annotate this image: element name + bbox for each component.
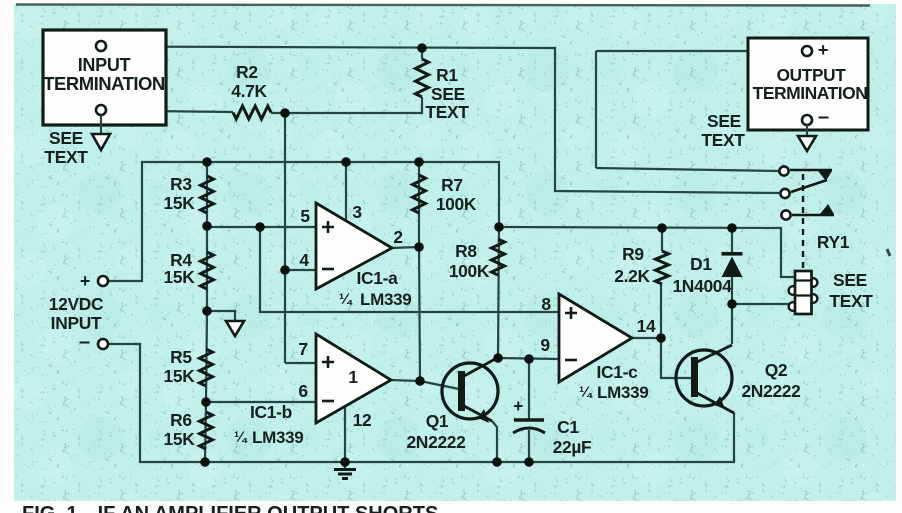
relay coil RY1 — [789, 286, 795, 295]
wire Q1 emitter to rail — [492, 421, 497, 462]
wire R2 right to divider node and R1 bottom — [271, 97, 422, 113]
12VDC input - terminal — [98, 339, 108, 349]
svg-text:INPUT: INPUT — [51, 313, 102, 333]
junction — [727, 299, 737, 309]
svg-text:6: 6 — [298, 381, 308, 401]
svg-text:D1: D1 — [690, 254, 712, 274]
svg-text:12: 12 — [353, 410, 372, 430]
wire D1 bottom to relay coil — [732, 303, 790, 305]
wire R8 leads — [498, 227, 499, 358]
wire pin 14 output — [632, 337, 661, 339]
wire pin 9 input — [498, 358, 559, 359]
junction — [524, 354, 534, 364]
junction — [202, 306, 212, 316]
junction — [255, 222, 265, 232]
svg-text:¼: ¼ — [234, 429, 248, 446]
svg-text:LM339: LM339 — [597, 383, 648, 402]
relay RY1 contact 3 — [792, 214, 834, 217]
svg-text:5: 5 — [300, 206, 310, 226]
svg-text:SEE: SEE — [833, 270, 867, 290]
wire R4 leads — [206, 226, 208, 311]
output terminal - — [802, 115, 812, 125]
wire pin 3 V+ stub — [345, 162, 347, 223]
wire divider vertical to pin4/pin7 — [284, 113, 286, 363]
wire D1 anode lead / Q2 collector node — [731, 228, 733, 304]
svg-text:3: 3 — [352, 202, 362, 222]
svg-text:2: 2 — [393, 227, 402, 247]
wire input-top to relay pole (node IN+) — [106, 47, 779, 194]
junction — [341, 157, 351, 167]
12VDC input + terminal — [98, 276, 108, 286]
svg-text:LM339: LM339 — [252, 428, 303, 447]
svg-text:2N2222: 2N2222 — [741, 381, 800, 401]
wire R9 bottom to Q2 base node — [661, 284, 692, 378]
svg-text:SEE: SEE — [707, 111, 741, 131]
svg-text:8: 8 — [541, 294, 551, 314]
junction — [200, 457, 210, 467]
junction — [524, 457, 534, 467]
svg-text:12VDC: 12VDC — [49, 294, 104, 314]
wire R1 top tap — [421, 48, 423, 59]
svg-text:SEE: SEE — [49, 128, 83, 148]
resistor R6 — [200, 412, 213, 449]
wire R7 leads — [418, 162, 420, 247]
wire pin 12 ground stub — [344, 404, 346, 462]
svg-text:R5: R5 — [170, 347, 192, 367]
svg-text:TEXT: TEXT — [829, 291, 873, 311]
svg-text:TEXT: TEXT — [44, 147, 88, 167]
svg-text:RY1: RY1 — [817, 232, 850, 252]
resistor R4 — [201, 252, 214, 289]
svg-text:2.2K: 2.2K — [614, 266, 650, 286]
wire pin 5 input — [207, 226, 316, 228]
input see-text arrow (ground) — [100, 115, 102, 134]
svg-text:R2: R2 — [236, 62, 258, 82]
svg-text:–: – — [818, 106, 829, 128]
wire R5 leads — [206, 311, 207, 402]
svg-text:+: + — [818, 40, 828, 60]
resistor R5 — [200, 349, 213, 386]
output terminal + — [802, 46, 812, 56]
input terminal + — [96, 41, 106, 51]
resistor R7 — [413, 175, 426, 213]
svg-text:4: 4 — [299, 250, 309, 270]
top scan line — [16, 5, 870, 6]
output termination box — [748, 38, 868, 130]
svg-text:7: 7 — [298, 339, 307, 359]
wire C1 bottom lead — [528, 430, 530, 462]
svg-text:2N2222: 2N2222 — [406, 432, 465, 452]
junction — [414, 242, 424, 252]
capacitor C1 — [514, 418, 544, 421]
junction — [494, 222, 504, 232]
op-amp IC1-b — [316, 334, 391, 423]
wire R6 leads — [205, 402, 206, 462]
diode D1 — [722, 252, 743, 256]
transistor Q1 — [442, 363, 498, 419]
junction — [202, 221, 212, 231]
svg-text:SEE: SEE — [431, 84, 465, 104]
junction — [280, 265, 290, 275]
junction — [727, 223, 737, 233]
wire +12V rail — [106, 162, 795, 281]
scan artifact mark — [887, 249, 890, 256]
svg-text:100K: 100K — [449, 261, 490, 281]
svg-text:R3: R3 — [170, 174, 192, 194]
wire R9 top tap — [661, 228, 663, 251]
svg-text:1: 1 — [348, 367, 358, 387]
wire ground rail from -12 terminal — [107, 344, 734, 462]
junction — [340, 457, 350, 467]
junction — [415, 376, 425, 386]
svg-text:R6: R6 — [170, 410, 192, 430]
junction — [493, 353, 503, 363]
svg-text:OUTPUT: OUTPUT — [777, 65, 847, 85]
svg-text:–: – — [79, 331, 90, 353]
svg-text:FIG. 1—IF AN AMPLIFIER OUTPUT: FIG. 1—IF AN AMPLIFIER OUTPUT SHORTS — [22, 503, 438, 513]
svg-text:22µF: 22µF — [553, 437, 592, 457]
input terminal - — [96, 105, 106, 115]
resistor R1 — [416, 59, 429, 97]
svg-text:9: 9 — [540, 335, 550, 355]
wire output-term + to relay top contact — [596, 50, 802, 52]
svg-text:IC1-c: IC1-c — [596, 362, 638, 382]
resistor R3 — [201, 176, 214, 213]
svg-text:TERMINATION: TERMINATION — [753, 83, 868, 103]
svg-text:R8: R8 — [455, 241, 477, 261]
svg-text:LM339: LM339 — [360, 290, 411, 309]
wire Q2 collector vertical — [731, 304, 733, 344]
svg-text:1N4004: 1N4004 — [672, 276, 732, 296]
op-amp IC1-a — [316, 203, 392, 289]
svg-text:TERMINATION: TERMINATION — [43, 73, 165, 94]
svg-text:Q1: Q1 — [426, 411, 449, 431]
transistor Q2 — [676, 350, 732, 406]
wire pin5 node to pin 8 of IC1-c — [260, 227, 559, 312]
junction — [202, 157, 212, 167]
wire R3 leads — [206, 162, 208, 226]
wire pin 4 stub — [285, 269, 316, 271]
relay RY1 armature blade — [791, 180, 827, 192]
svg-text:+: + — [80, 271, 90, 291]
svg-text:IC1-a: IC1-a — [356, 268, 398, 288]
svg-text:Q2: Q2 — [765, 360, 788, 380]
svg-text:4.7K: 4.7K — [231, 81, 267, 101]
svg-text:14: 14 — [637, 316, 656, 336]
svg-text:IC1-b: IC1-b — [250, 402, 292, 422]
junction — [417, 43, 427, 53]
wire input-bottom to R2 — [106, 111, 233, 113]
ground symbol (pin 12) — [344, 462, 346, 469]
wire output tie line to Q1 base node — [419, 247, 420, 381]
output see-text arrow (ground) — [806, 125, 808, 136]
svg-text:+: + — [513, 396, 523, 416]
svg-text:15K: 15K — [163, 366, 195, 386]
svg-text:¼: ¼ — [579, 384, 593, 401]
junction — [201, 397, 211, 407]
resistor R9 — [656, 251, 669, 284]
svg-text:TEXT: TEXT — [701, 130, 745, 150]
junction — [656, 333, 666, 343]
junction — [492, 457, 502, 467]
svg-text:TEXT: TEXT — [425, 102, 469, 122]
wire pin 6 input — [206, 401, 316, 403]
op-amp IC1-c — [559, 294, 632, 382]
svg-text:15K: 15K — [163, 429, 195, 449]
wire pin 2 output — [391, 247, 419, 248]
wire ref arrow branch — [207, 311, 235, 321]
svg-text:100K: 100K — [436, 194, 477, 214]
svg-text:R7: R7 — [441, 175, 463, 195]
svg-text:C1: C1 — [557, 417, 579, 437]
relay RY1 actuator dashed link — [802, 174, 804, 268]
wire pin 1 output — [390, 380, 420, 381]
half-supply ref arrow — [226, 321, 244, 336]
input termination box — [43, 30, 166, 125]
resistor R2 — [233, 106, 271, 119]
wire Q1 base lead — [420, 381, 459, 389]
junction — [280, 108, 290, 118]
svg-text:15K: 15K — [163, 193, 195, 213]
resistor R8 — [492, 239, 505, 275]
svg-text:R1: R1 — [436, 65, 458, 85]
wire pin 7 stub — [285, 362, 316, 364]
svg-text:R9: R9 — [622, 244, 644, 264]
wire C1 top lead — [528, 359, 530, 419]
relay RY1 contact 1 — [790, 169, 832, 172]
svg-text:INPUT: INPUT — [78, 55, 131, 75]
junction — [414, 157, 424, 167]
junction — [657, 223, 667, 233]
svg-text:15K: 15K — [163, 267, 195, 287]
svg-text:¼: ¼ — [339, 291, 353, 308]
